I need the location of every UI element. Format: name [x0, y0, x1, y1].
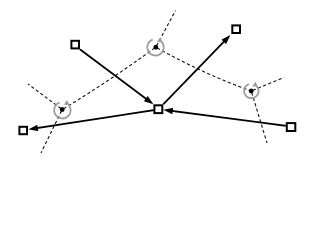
arrow from bottom-right square to central square	[163, 108, 285, 126]
rotation-center top: gray circular arrow	[147, 37, 163, 55]
dashed ray from center1 up-right	[157, 11, 176, 46]
square node central	[154, 105, 162, 113]
arrow from central square to bottom-left square	[28, 110, 153, 131]
dashed ray from center3 up-right	[253, 78, 284, 91]
rotation-center left: gray circular arrow	[54, 100, 70, 118]
square node top-right	[232, 25, 240, 33]
dashed line from center2 to center1	[64, 47, 156, 108]
dashed line from center1 to center3	[157, 48, 251, 91]
square node top-left	[71, 41, 79, 49]
dashed ray from center3 down	[252, 93, 267, 144]
arrow from top-left square to central square	[80, 49, 153, 104]
square node bottom-right	[287, 123, 296, 131]
rotation dot right	[249, 89, 254, 94]
rotation dot left	[60, 107, 65, 112]
arrow from central square to top-right square	[163, 35, 230, 104]
dashed ray from center2 up-left	[28, 84, 61, 109]
dashed ray from center2 down-left	[41, 111, 62, 153]
rotation-center right: gray circular arrow	[244, 82, 258, 98]
square node bottom-left	[19, 127, 27, 134]
rotation dot top	[153, 45, 158, 50]
